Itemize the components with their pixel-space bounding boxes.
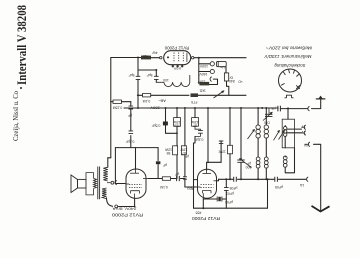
capacitor C11 on audio bus — [234, 177, 237, 182]
svg-text:100: 100 — [163, 78, 169, 82]
IF transformer T1 lower coils — [256, 157, 268, 168]
wire audio out bus y=179.3 — [219, 178, 234, 180]
wire top terminal to aerial cap — [312, 100, 321, 109]
svg-text:Czeija, Nissl u. Co: Czeija, Nissl u. Co — [12, 91, 20, 141]
wire grid frame V2 top — [115, 147, 158, 149]
tube V1 electrodes — [167, 53, 187, 63]
svg-text:FT5: FT5 — [191, 100, 197, 104]
wire cathode drop x=156.3 — [155, 70, 157, 76]
wire top bus right of tube V1 — [194, 57, 246, 59]
wire V2 grid riser — [135, 148, 137, 164]
svg-text:5µF: 5µF — [129, 73, 135, 77]
aerial symbol small — [316, 96, 326, 99]
svg-text:100V: 100V — [199, 64, 208, 68]
svg-text:Meßwerte bei 220V~: Meßwerte bei 220V~ — [265, 45, 312, 50]
svg-text:12W: 12W — [164, 148, 172, 152]
svg-text:µF: µF — [128, 114, 132, 118]
capacitor C7 V3 grid top — [219, 141, 223, 144]
IF transformer T2 lower coil — [283, 156, 287, 167]
wire box left vertical — [225, 179, 227, 187]
instrument Un box — [216, 61, 226, 66]
svg-text:AB−: AB− — [158, 99, 166, 104]
resistor R1 0.15M — [113, 100, 122, 103]
wire row C link — [209, 79, 217, 84]
wire IF left column bottom — [257, 168, 259, 179]
capacitor C4 x=130.8 lower — [129, 131, 134, 134]
wire x=208 bus108 to grid line — [207, 108, 209, 162]
wire transformer lower lead curve — [107, 198, 113, 207]
svg-text:Un: Un — [220, 65, 224, 69]
resistor R5 12W — [192, 118, 199, 127]
socket keyway — [285, 95, 294, 98]
measurement row A socket circle — [210, 62, 214, 66]
tube V2 electrodes — [126, 170, 149, 199]
wire blob cap to jog — [166, 125, 178, 133]
capacitor C13 V3 cathode — [217, 197, 222, 202]
wire coupling V2 plate to resistor — [149, 178, 163, 180]
capacitor C15 coupling bars — [177, 176, 180, 181]
wire IF drop second column — [265, 108, 267, 125]
wire x=195 bus108 to R2 — [194, 108, 196, 118]
wire bottom bus right riser — [267, 179, 269, 208]
svg-text:DM: DM — [264, 121, 269, 125]
wire heater wire from transformer terminal — [119, 206, 135, 208]
title model name — [15, 5, 29, 85]
wire x=230 bus108 to R — [229, 108, 231, 145]
wire left tall vertical — [110, 58, 112, 158]
svg-text:µF05: µF05 — [225, 200, 233, 204]
wire IF left column middle — [257, 138, 259, 157]
resistor 40k hatched — [141, 56, 151, 60]
wire bus95 left — [137, 94, 142, 96]
svg-text:1kΩ: 1kΩ — [199, 88, 206, 92]
IF transformer T1 tuning arrow left — [248, 129, 256, 139]
wire V2 bottom pin drop — [134, 198, 136, 206]
antenna main symbol — [312, 206, 330, 212]
wire row A stub — [199, 63, 210, 65]
wire x=177 bus108 to R bank — [176, 108, 178, 118]
measurement row C socket — [210, 77, 212, 82]
output transformer T3 core — [98, 167, 100, 200]
wire V3 left pin stub — [185, 186, 197, 188]
svg-text:4W: 4W — [152, 51, 158, 55]
svg-text:200V: 200V — [150, 105, 160, 110]
wire IF box to terminal row2 — [287, 132, 302, 134]
speaker LS1 cone — [71, 175, 86, 193]
title separator dot — [20, 87, 22, 89]
resistor R8 12W right — [228, 145, 233, 154]
variable capacitor C8 with arrow — [237, 158, 251, 167]
svg-text:12W: 12W — [173, 120, 181, 124]
wire V3 right pin stub — [217, 179, 219, 181]
svg-text:0,1M: 0,1M — [160, 185, 168, 189]
title manufacturer — [12, 91, 20, 141]
terminal TB5 audio out — [307, 177, 309, 181]
svg-text:Dr: Dr — [229, 75, 233, 79]
capacitor C16 blob grid frame — [156, 161, 161, 164]
capacitor C5 blob 0.5uF — [163, 122, 168, 126]
wire output transformer top lead — [108, 157, 111, 159]
capacitor C3 on drop x=130.8 — [129, 106, 134, 109]
wire 0.15M branch — [111, 101, 113, 103]
wire Dr box bottom to bus — [227, 81, 229, 95]
speaker LS1 voice winding zigzag — [94, 178, 97, 188]
wire grid drop x=138 top bus to bus95 — [137, 58, 139, 77]
wire row B stub — [199, 71, 210, 73]
svg-text:0,5µF: 0,5µF — [152, 123, 161, 127]
svg-text:RV12 P2000: RV12 P2000 — [111, 212, 143, 217]
socket X mark — [296, 85, 300, 89]
svg-text:0,2µF: 0,2µF — [195, 137, 204, 141]
wire IF right column riser — [287, 109, 289, 120]
capacitor C12 on audio bus right — [275, 177, 278, 182]
IF transformer T2 coil — [284, 126, 287, 136]
svg-text:a g k: a g k — [174, 66, 182, 70]
resistor R7 lower mid — [181, 146, 186, 155]
wire bus108 — [124, 107, 278, 109]
tube V1 left pin — [160, 57, 162, 59]
svg-text:12W: 12W — [180, 148, 188, 152]
svg-text:µF05: µF05 — [229, 186, 237, 190]
switch S1 arrow — [214, 90, 225, 98]
wire grid frame left vertical — [115, 148, 117, 184]
wire below cap down to bottom left riser — [194, 136, 196, 208]
svg-text:0,15M: 0,15M — [113, 106, 123, 110]
svg-text:720: 720 — [174, 123, 180, 127]
wire IF drop left column — [257, 108, 259, 125]
svg-text:Intervall V 38208: Intervall V 38208 — [15, 5, 29, 85]
wire measurement drop x=198.8 — [198, 58, 200, 84]
wire grid frame right vertical lower — [157, 165, 159, 179]
wire IF right column coil links — [284, 126, 286, 127]
tube V1 envelope — [164, 51, 191, 65]
inductor L1 filament choke — [156, 75, 190, 87]
wire x=184.9 bus108 down between banks — [184, 108, 186, 146]
variable capacitor C9 at bus108 — [263, 108, 273, 121]
wire V2 left pin to connector — [117, 183, 125, 185]
svg-text:µF03: µF03 — [226, 191, 234, 195]
tube V3 envelope — [198, 169, 217, 198]
tube V1 right pin — [192, 57, 194, 59]
capacitor C2 cathode x=156.3 — [154, 76, 159, 79]
svg-text:12W: 12W — [191, 120, 199, 124]
svg-text:160V: 160V — [199, 72, 208, 76]
wire resistor to cap — [171, 178, 176, 180]
wire V2 anode top pin riser — [135, 164, 137, 170]
capacitor C6 0.2uF — [195, 126, 203, 136]
wire V3 grid riser x=221.1 — [220, 141, 222, 162]
IF transformer T2 box — [282, 119, 294, 148]
IF transformer T2 tuning arrow — [279, 130, 286, 140]
svg-text:µF: µF — [175, 172, 179, 176]
connector J1 center tap — [107, 181, 117, 185]
svg-text:0V: 0V — [303, 143, 308, 147]
wire V3 cathode cap stub — [203, 198, 217, 200]
svg-text:0,2µF: 0,2µF — [126, 140, 135, 144]
wire cap to corner — [181, 178, 185, 180]
tube V2 envelope — [126, 169, 146, 198]
wire terminal row3 antenna feed — [314, 144, 321, 210]
terminal TB4 top — [308, 106, 310, 110]
wire x=138 bus95 to bus108 — [137, 95, 139, 108]
svg-text:RV12 P2000: RV12 P2000 — [164, 46, 189, 51]
wire x=165.5 bus108 to blob cap — [165, 108, 167, 122]
socket pins — [281, 69, 299, 85]
svg-text:1V: 1V — [301, 124, 306, 128]
svg-text:0,1M: 0,1M — [143, 99, 151, 103]
svg-text:µF: µF — [247, 162, 251, 166]
measurement row B socket — [210, 69, 214, 73]
capacitor C1 grid x=138 — [136, 76, 141, 79]
speaker LS1 coil frame — [86, 173, 94, 195]
wire bus95 right — [197, 94, 246, 96]
resistor R9 coupling — [162, 177, 170, 181]
output transformer T3 primary upper — [103, 167, 108, 181]
tube V1 bottom pins — [172, 65, 183, 67]
resistor R4 12W 720 — [174, 118, 181, 127]
wire left short bus at V3 left — [194, 179, 198, 181]
resistor R2 0.1M on bus95 — [143, 94, 151, 97]
wire IF box to terminal row1 — [287, 128, 302, 130]
wire IF right column bottom loop — [285, 148, 294, 173]
terminal TB1 row1 — [302, 125, 306, 129]
wire top bus left segment — [111, 57, 141, 59]
resistor R3 1k hatched — [199, 82, 209, 86]
svg-text:Meßinstrument: 133Ω/V: Meßinstrument: 133Ω/V — [263, 54, 311, 59]
svg-text:µF: µF — [185, 154, 189, 158]
component FTS box — [191, 93, 199, 97]
wire V3 cathode drop — [202, 199, 204, 208]
wire bus95 mid — [151, 94, 189, 96]
IF transformer T1 tuning arrow right — [274, 130, 281, 140]
resistor R6 lower left — [173, 146, 178, 155]
output transformer T3 primary lower — [102, 188, 107, 199]
wire corner down to V3 grid stub — [184, 179, 186, 188]
wire grid frame right vertical upper — [157, 148, 159, 161]
svg-text:55: 55 — [167, 151, 171, 155]
wire bottom bus — [194, 207, 268, 209]
svg-text:µF: µF — [163, 163, 167, 167]
svg-text:µF05: µF05 — [275, 185, 283, 189]
svg-text:40k: 40k — [142, 54, 148, 58]
svg-text:455: 455 — [196, 210, 202, 214]
wire x=130.8 drop with caps — [130, 102, 132, 106]
wire rowA box to Dr box — [225, 67, 227, 73]
terminal TB3 antenna — [305, 142, 311, 146]
svg-text:RV12 P2000: RV12 P2000 — [192, 216, 220, 221]
svg-text:Sockelschaltung: Sockelschaltung — [274, 63, 306, 68]
svg-text:µF: µF — [271, 106, 275, 110]
wire V3 grid line — [207, 162, 222, 170]
terminal TB2 row2 — [302, 131, 306, 135]
socket diagram circle — [279, 69, 302, 92]
svg-text:1A: 1A — [299, 183, 304, 187]
tube V3 electrodes — [198, 171, 217, 200]
capacitor C14 blob near V3 left — [183, 177, 187, 179]
svg-text:≈D: ≈D — [238, 80, 243, 84]
wire x=241 bus108 down — [240, 108, 242, 160]
svg-text:2V: 2V — [301, 130, 306, 134]
svg-text:5µF: 5µF — [147, 73, 153, 77]
wire top bus between resistor and tube V1 — [151, 57, 160, 59]
choke Dr box — [224, 73, 228, 81]
IF transformer T1 upper coils — [256, 125, 269, 138]
capacitor C17 on box vertical — [224, 188, 229, 191]
wire link y=70 — [138, 69, 156, 71]
svg-text:840: 840 — [229, 79, 235, 83]
svg-text:12W:: 12W: — [218, 149, 226, 153]
capacitor C10 antenna series — [278, 106, 281, 112]
connector J2 bottom — [115, 205, 118, 208]
